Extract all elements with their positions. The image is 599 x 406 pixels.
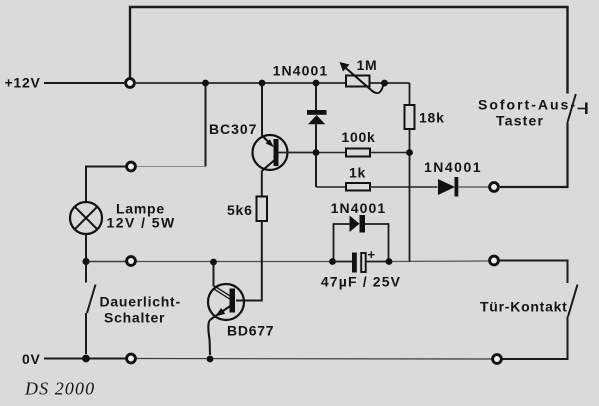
svg-text:12V / 5W: 12V / 5W [107,215,176,231]
wire BC307 collector down to 5k6 [261,171,263,197]
label 47µF / 25V [321,274,401,290]
potentiometer P1 1M [340,62,384,93]
label 1N4001 right [424,159,482,175]
diode D1 1N4001 vertical [307,83,327,153]
wire BD677 collector up to middle rail [213,262,215,287]
resistor R1 18k [405,105,415,129]
svg-text:BD677: BD677 [227,323,274,339]
wire top rail from +12V terminal up and across to Sofort-Aus-Taster [130,7,568,94]
label 1N4001 top [273,62,329,78]
terminal T4 [127,354,136,363]
svg-text:1N4001: 1N4001 [424,159,482,175]
diode D2 1N4001 parallel to capacitor [334,215,389,262]
label 1k [349,165,366,181]
wire lamp top stem to T2 [86,167,126,203]
capacitor C1 47µF/25V electrolytic [352,247,376,273]
svg-text:DS 2000: DS 2000 [24,379,95,399]
wire middle rail y=261.5 thin section to capacitor [137,261,333,263]
wire 5k6 down to BD677 base [236,221,262,301]
wire thin link T2 to x=205.5 [137,166,206,168]
wire T6 to Tür-Kontakt top [500,261,568,284]
label 1N4001 middle [331,200,387,216]
svg-text:0V: 0V [22,351,41,367]
resistor R3 1k [316,183,438,191]
svg-text:Dauerlicht-: Dauerlicht- [100,294,181,310]
wire 18k bottom down to middle rail (crosses 1k line) [409,129,411,262]
label Dauerlicht-Schalter [100,294,181,326]
switch Tür-Kontakt blade [568,285,578,317]
label 1M [357,57,378,73]
svg-text:100k: 100k [341,129,375,145]
wire lamp bottom stem [85,234,87,262]
label Lampe 12V / 5W [107,201,176,231]
svg-text:BC307: BC307 [209,121,257,137]
wire middle rail y=261.5 thin section to T6 [389,260,489,263]
label BD677 [227,323,274,339]
label Sofort-Aus-Taster [478,97,577,129]
wire node x=316 down to 1k line [315,153,317,188]
node 0V label [22,351,41,367]
wire 0V rail thin [137,358,492,361]
svg-text:+12V: +12V [5,75,41,91]
svg-text:1M: 1M [357,57,378,73]
switch Sofort-Aus-Taster [567,94,586,123]
transistor Q1 BC307 emitter wire from +12V rail [261,83,263,136]
terminal T7 [493,355,502,364]
wire middle rail y=261.5 left part [86,261,126,263]
svg-text:47µF / 25V: 47µF / 25V [321,274,401,290]
label BC307 [209,121,257,137]
svg-text:1N4001: 1N4001 [331,200,387,216]
label 18k [419,110,445,126]
wire BC307 base line to node at x=316 [279,152,317,154]
terminal T6 [490,256,499,265]
resistor R4 5k6 [257,197,268,222]
node +12V label [5,75,41,91]
terminal T1 +12V [126,79,135,88]
wire +12V lead [44,82,124,84]
wire middle rail capacitor left lead [333,261,353,263]
svg-text:1N4001: 1N4001 [273,62,329,78]
label Tür-Kontakt [480,299,568,315]
svg-text:18k: 18k [419,110,445,126]
switch Dauerlicht-Schalter [86,262,96,355]
terminal T2 [127,162,136,171]
wire vertical from T2 line up to +12V rail at x=205.5 [205,83,207,167]
resistor R2 100k [316,149,410,157]
label 100k [341,129,375,145]
svg-text:Tür-Kontakt: Tür-Kontakt [480,299,568,315]
svg-text:5k6: 5k6 [227,202,253,218]
wire Tür-Kontakt bottom to T7 [503,317,568,360]
svg-text:1k: 1k [349,165,366,181]
wire +12V rail y=83 [136,82,410,84]
label 5k6 [227,202,253,218]
terminal T3 [127,257,136,266]
lamp La1 12V/5W [70,202,102,234]
svg-text:Sofort-Aus-: Sofort-Aus- [478,97,577,113]
transistor Q2 BD677 [208,284,244,355]
svg-text:Schalter: Schalter [104,310,165,326]
diode D3 1N4001 to Sofort-Aus-Taster [438,177,489,197]
wire right vertical x=409.5 top: rail corner down to 18k [409,83,411,105]
wire 0V lead [44,358,126,360]
wire middle rail capacitor right lead [367,261,390,263]
terminal T5 [490,183,499,192]
svg-text:+: + [368,247,376,262]
wire T5 to Sofort-Aus-Taster bottom [500,123,568,187]
label DS 2000 [24,379,95,399]
svg-text:Taster: Taster [496,113,544,129]
transistor Q1 BC307 [253,135,288,171]
